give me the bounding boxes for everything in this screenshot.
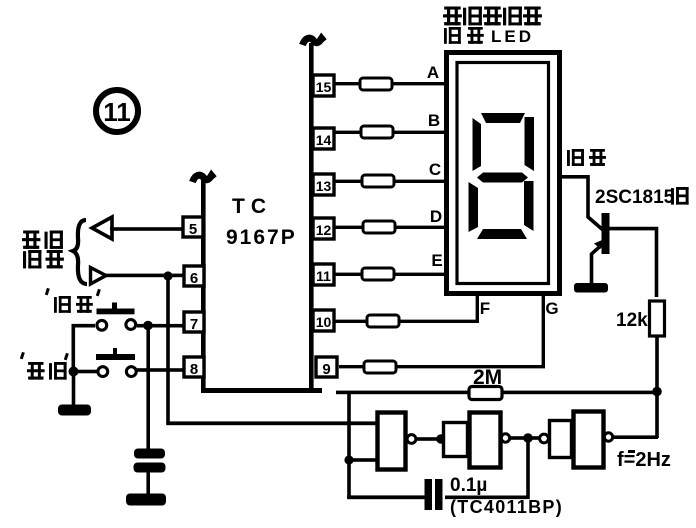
svg-text:14: 14	[316, 132, 332, 148]
segment g of digit	[477, 173, 528, 183]
svg-text:13: 13	[316, 178, 332, 194]
wire across to oscillator input	[166, 421, 377, 425]
wire pin14 segment B	[334, 131, 449, 134]
IC label TC 9167P	[226, 195, 297, 249]
svg-text:6: 6	[190, 270, 198, 287]
ground at transistor emitter	[574, 283, 608, 293]
pin 8	[184, 357, 204, 378]
pin 9	[316, 357, 337, 378]
node junction preset / reset / ground	[69, 367, 79, 377]
resistor R1 2M	[469, 387, 502, 400]
svg-text:2M: 2M	[473, 366, 502, 389]
input bubble gate3	[540, 434, 549, 443]
label f=2Hz	[617, 449, 671, 471]
svg-text:8: 8	[190, 361, 198, 378]
segment d of digit	[477, 229, 527, 239]
wire preset to pin 8	[137, 368, 184, 372]
wire node to ground	[72, 371, 76, 406]
wire cap to gate2 output branch	[445, 441, 528, 497]
svg-text:9167P: 9167P	[226, 226, 297, 249]
label 复位 reset	[45, 288, 101, 313]
resistor RA	[360, 78, 392, 90]
wire reset left leg	[73, 326, 95, 371]
wire pin12 segment D	[334, 226, 449, 229]
wire gate3 output to 12k branch	[613, 435, 658, 439]
svg-text:9: 9	[322, 361, 330, 378]
power arrow right	[303, 38, 325, 45]
pin 11	[313, 264, 334, 285]
svg-text:10: 10	[316, 314, 332, 330]
pin 5	[183, 217, 203, 238]
wire 2M feedback line	[336, 391, 658, 395]
svg-text:A: A	[427, 63, 439, 82]
wire pin10 segment F	[334, 294, 477, 321]
pin 7	[184, 312, 204, 333]
wire vertical from 2M line down to RC cap line	[347, 394, 351, 499]
svg-text:11: 11	[316, 268, 331, 284]
resistor RC	[362, 175, 394, 187]
svg-text:C: C	[429, 160, 441, 179]
wire cap bottom line left	[347, 495, 426, 499]
node junction pin7 / cap branch	[143, 321, 153, 331]
wire triangle to pin 5	[110, 227, 184, 231]
resistor RF	[367, 315, 399, 327]
resistor RB	[361, 126, 393, 138]
power arrow left	[193, 175, 215, 182]
svg-text:2SC1815: 2SC1815	[595, 187, 675, 208]
svg-text:11: 11	[103, 97, 131, 127]
segment e of digit	[469, 182, 479, 232]
segment f of digit	[473, 118, 482, 171]
wire preset left leg	[73, 370, 97, 374]
svg-text:G: G	[545, 299, 558, 318]
wire triangle to pin 6	[104, 274, 184, 278]
pin 13	[313, 174, 334, 195]
pin 12	[313, 218, 334, 239]
brace	[73, 220, 87, 284]
transistor Q1 2SC1815	[592, 213, 657, 297]
svg-text:D: D	[430, 207, 442, 226]
wire C1 to ground	[146, 472, 150, 496]
svg-text:B: B	[428, 111, 440, 130]
gate U2a	[378, 413, 416, 470]
wire reset to pin7	[137, 324, 184, 328]
segment b of digit	[525, 117, 535, 171]
label 共阴极七段 common-cathode 7-seg	[443, 7, 542, 26]
node junction gate1 lower input	[344, 455, 353, 464]
wire pin9 segment G	[339, 294, 543, 367]
resistor RE	[362, 268, 394, 280]
switch S2 preset	[96, 348, 136, 377]
node junction gate2 out / cap branch	[523, 433, 533, 443]
resistor R2 12k	[650, 301, 665, 336]
ground below C1	[126, 494, 166, 506]
display inner frame	[457, 63, 549, 284]
gate U2c	[550, 412, 613, 468]
wire down to capacitor C1	[146, 325, 150, 449]
wire gate1 out to gate2 in	[416, 437, 443, 441]
pin 15	[313, 75, 334, 96]
node junction 12k / 2M line	[652, 387, 662, 397]
ground below preset	[58, 405, 91, 416]
pin 6	[184, 266, 204, 287]
LED display DS1 outer body	[447, 53, 560, 294]
segment c of digit	[524, 181, 534, 231]
node junction at gate2 input	[436, 434, 446, 444]
capacitor C1 plates	[134, 449, 166, 473]
svg-text:E: E	[431, 251, 442, 270]
label 控制信号 control signal	[22, 231, 64, 269]
wire down from pin6 node	[166, 276, 170, 423]
input triangle upper (points left)	[92, 217, 112, 239]
node junction at pin6 wire	[163, 271, 172, 280]
label 数码LED	[444, 27, 534, 46]
switch S1 reset	[97, 303, 136, 331]
svg-text:f=2Hz: f=2Hz	[617, 449, 671, 471]
gate U2b	[444, 413, 510, 468]
segment a of digit	[481, 113, 525, 123]
svg-text:TC: TC	[232, 195, 272, 218]
wire 12k down to oscillator output	[655, 336, 659, 438]
wire pin13 segment C	[334, 180, 449, 183]
svg-text:(TC4011BP): (TC4011BP)	[450, 497, 563, 517]
figure number 11 circled	[96, 90, 138, 132]
label 阴极 cathode	[567, 149, 606, 166]
svg-text:12k: 12k	[616, 310, 648, 331]
IC bottom edge	[201, 388, 322, 393]
input triangle lower (points right)	[91, 268, 107, 285]
wire gate2 out to gate3 in	[510, 436, 540, 440]
label 预置 preset	[20, 352, 69, 380]
IC U1 TC9167P left edge	[201, 176, 206, 392]
wire pin11 segment E	[334, 273, 449, 276]
cathode wire from display to transistor base bar	[558, 177, 603, 230]
wire pin15 segment A	[334, 82, 449, 85]
svg-text:F: F	[480, 299, 490, 318]
resistor RG	[364, 361, 396, 373]
pin 10	[313, 310, 334, 331]
IC right edge	[309, 43, 314, 392]
pin 14	[313, 128, 334, 149]
svg-text:7: 7	[190, 316, 198, 333]
label 2SC1815等	[595, 187, 689, 208]
svg-text:LED: LED	[491, 27, 534, 46]
svg-text:5: 5	[189, 221, 197, 238]
capacitor C2 0.1u plates	[425, 479, 443, 510]
svg-text:15: 15	[316, 79, 332, 95]
resistor RD	[363, 221, 395, 233]
svg-text:0.1µ: 0.1µ	[450, 475, 487, 496]
svg-text:12: 12	[316, 222, 332, 238]
wire to gate1 lower input	[349, 458, 376, 462]
